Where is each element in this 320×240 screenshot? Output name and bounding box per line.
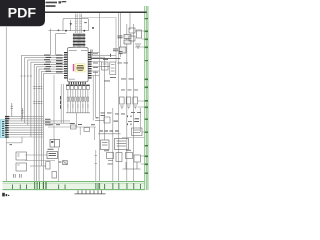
wire: right long verticals: [100, 13, 141, 181]
IC604 box: [115, 139, 129, 150]
IC601 left pins: [64, 52, 68, 79]
green highlighted power rail band (bottom GND bus): [3, 181, 147, 190]
IC601 internal pin numbers: [69, 50, 88, 79]
green highlighted power rail band (right vertical bus): [144, 6, 148, 190]
wire: bend nets from IC right to x116: [91, 50, 121, 59]
ground symbols under capacitor bank: [120, 106, 137, 109]
title text top: [46, 1, 67, 7]
crystal ladder X601 columns: [76, 14, 82, 34]
net labels row mid-right: [101, 112, 142, 116]
labels near oscillator: [103, 59, 134, 81]
pink highlight mark: [73, 64, 75, 71]
cluster labels: [96, 116, 140, 126]
wire: horizontal net y133.8: [98, 133, 121, 135]
capacitor pair C614: [20, 174, 22, 178]
C622 label: [113, 49, 118, 52]
ticked connector edge below band, bottom-right: [75, 190, 106, 194]
wire: bottom-middle verticals: [59, 148, 96, 181]
labels near y127 net: [49, 123, 95, 125]
oscillator circuit boxes X601: [102, 62, 116, 75]
IC601 right pin nets: [92, 53, 110, 76]
capacitor C621: [124, 35, 131, 45]
dark green ticks on right bus: [145, 18, 148, 174]
connector CN602 two-cell box: [50, 140, 60, 148]
labels above y133.8 net: [100, 131, 119, 132]
wire stubs into right power bus: [122, 31, 145, 164]
wire loop around oscillator: [63, 18, 89, 30]
transistor cluster bottom-right Q602: [123, 153, 141, 170]
capacitor pair C613: [14, 174, 16, 178]
label tick: [84, 21, 87, 24]
wire bus: nested L-bend from IC left pins down to connector area: [22, 55, 64, 181]
dark green ticks inside bottom bus: [12, 182, 141, 189]
test point tick: [92, 27, 94, 29]
labels above bend nets: [110, 51, 123, 57]
ladder rungs: [75, 16, 82, 29]
relay box K601: [16, 152, 27, 160]
relay box K602: [16, 163, 27, 171]
EEPROM IC603: [47, 152, 58, 159]
test point cross: [57, 29, 59, 31]
capacitor C622: [120, 47, 127, 53]
ticks on right vertical: [95, 156, 97, 164]
junction: [83, 30, 85, 32]
junction: [65, 30, 67, 32]
IC603 label: [48, 149, 57, 156]
wire: horizontal net y127: [48, 126, 96, 128]
IC602 box: [101, 140, 110, 150]
wire: center vertical continuing down: [54, 71, 96, 140]
svg-text:PDF: PDF: [8, 6, 37, 22]
resistor R613 on left net: [10, 143, 12, 146]
right pin net labels: [93, 53, 98, 72]
bus vertical end ticks: [21, 75, 32, 77]
wire: long left vertical net: [5, 27, 7, 181]
varistor Z601: [59, 161, 68, 165]
resistor R611: [11, 103, 13, 117]
capacitor bank mid-right: [120, 97, 138, 104]
connector CN601 (cyan highlighted): [1, 120, 6, 138]
wire: column drops below resistor array: [68, 89, 88, 112]
PDF badge: [0, 0, 45, 26]
value labels on column drops: [67, 104, 88, 108]
ferrite bead FB602: [84, 128, 90, 132]
header rule: [3, 11, 147, 13]
regulator cluster near right bus: [132, 128, 143, 136]
main IC IC601 body: [68, 48, 89, 82]
top pin-bundle into IC601: [73, 33, 85, 47]
wire: stub from left net: [6, 137, 22, 143]
wire: left drop to bus: [51, 29, 67, 56]
wire: net y17.5 across top: [82, 17, 116, 19]
component cluster right-middle row y117-124: [95, 117, 110, 123]
CN602 inner mark: [51, 141, 53, 143]
wire: bottom-left horizontals: [25, 155, 55, 166]
transistor cluster bottom-right Q601: [107, 153, 123, 162]
C621 label: [118, 36, 123, 39]
extra net labels right half: [104, 63, 138, 165]
series resistors on bus verticals: [33, 87, 42, 104]
wire: collector net under columns: [66, 112, 90, 114]
resistor pack labels mid-left: [45, 119, 51, 126]
CN601 pins: [5, 120, 9, 137]
capacitor C611: [46, 162, 50, 170]
copyright text bottom-left: [2, 193, 9, 197]
resistor bodies on column drops: [67, 97, 89, 101]
CN601 pin numbers: [2, 121, 4, 136]
net labels above CN601: [5, 116, 9, 120]
rotated net label: [60, 96, 61, 109]
diode D601: [70, 20, 72, 31]
wire: horizontal net y30.7: [49, 30, 89, 32]
yellow highlighted part number label on IC601: [75, 64, 85, 72]
ferrite bead FB601: [70, 125, 76, 129]
page background: [0, 0, 149, 198]
resistor R612: [21, 108, 23, 119]
pin name labels left of IC: [44, 55, 63, 73]
component cluster right of top rail: [129, 28, 142, 48]
dark tops of resistor array: [66, 85, 89, 86]
wire: vertical x116: [115, 18, 117, 63]
resistor array under IC601: [66, 85, 89, 90]
IC601 right pins: [88, 52, 92, 79]
IC601 bottom pins: [69, 82, 86, 85]
capacitor C612: [52, 172, 57, 179]
wire: CN601 row nets to bus: [9, 117, 70, 137]
